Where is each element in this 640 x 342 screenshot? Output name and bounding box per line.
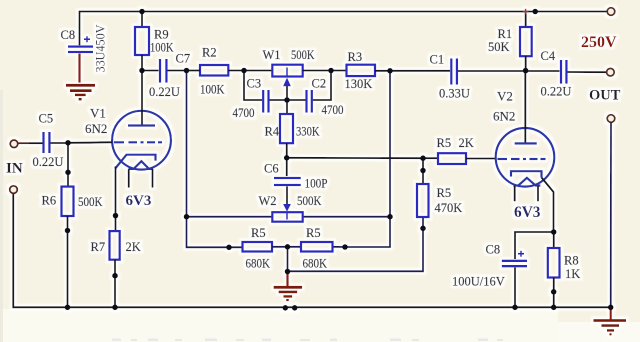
label 100K (R2)	[200, 83, 225, 97]
capacitor C5	[18, 132, 113, 153]
terminal (IN)	[10, 140, 18, 148]
node: R7 bottom joint	[112, 273, 118, 279]
label OUT	[589, 88, 621, 104]
svg-text:1K: 1K	[565, 267, 580, 281]
svg-text:R7: R7	[91, 240, 106, 254]
label 6V3 (V2 heater)	[514, 204, 541, 221]
label R5 (680K left)	[251, 226, 266, 240]
node marker (red cross at R1/top rail)	[523, 9, 529, 15]
svg-text:C2: C2	[312, 77, 327, 91]
node: W2 wire right/feedback	[387, 214, 393, 220]
label 100U/16V	[452, 275, 505, 289]
svg-text:W2: W2	[259, 194, 277, 208]
label IN	[6, 161, 23, 177]
node: W1 wiper/C3/C2	[284, 97, 290, 103]
capacitor C8 (100U/16V)	[502, 232, 554, 307]
resistor R8	[548, 232, 560, 307]
svg-text:6N2: 6N2	[85, 121, 107, 136]
wire: bottom ground rail	[13, 193, 610, 307]
resistor R9	[135, 12, 149, 71]
svg-text:R9: R9	[154, 28, 169, 42]
resistor R5 (470K)	[417, 158, 429, 217]
node: top rail right	[532, 9, 538, 15]
label 1K (R8)	[565, 267, 580, 281]
label R8	[564, 254, 579, 268]
label R5 (680K right)	[306, 226, 321, 240]
wire: R4 node to R5 grid row	[287, 157, 423, 159]
node: R9/C7/V1 anode	[139, 68, 145, 74]
label 4700 (C2)	[322, 103, 344, 117]
wire: red stub to bottom-right ground	[610, 307, 612, 319]
svg-text:250V: 250V	[581, 34, 617, 51]
svg-text:R5: R5	[437, 186, 452, 200]
svg-text:R1: R1	[498, 27, 513, 41]
label 33U450V (vertical)	[93, 24, 108, 73]
svg-text:0.22U: 0.22U	[541, 85, 572, 99]
resistor R7	[110, 231, 120, 307]
label C4	[541, 49, 556, 63]
vacuum tube V2 (6N2 triode)	[496, 71, 555, 232]
label R1	[498, 27, 513, 41]
node: 470K bottom joint	[420, 226, 426, 232]
node: R8 bottom joint	[551, 289, 557, 295]
capacitor C8 (33U450V)	[68, 36, 93, 82]
capacitor C4	[561, 60, 607, 84]
label 4700 (C3)	[233, 106, 255, 120]
svg-text:500K: 500K	[297, 194, 322, 208]
label 330K (R4)	[296, 125, 320, 139]
label V2	[497, 89, 513, 104]
node: rail/C8	[512, 305, 518, 311]
svg-text:R5: R5	[306, 226, 321, 240]
svg-text:130K: 130K	[345, 77, 373, 91]
node: V1 cathode/R7	[113, 213, 119, 219]
svg-text:6V3: 6V3	[514, 204, 541, 221]
label 500K (W1)	[291, 48, 315, 62]
label R3	[348, 50, 363, 64]
node: C7/R2/feedback	[184, 68, 190, 74]
node: rail/right edge	[608, 305, 614, 311]
node: R4/C6	[284, 155, 290, 161]
svg-text:C4: C4	[541, 49, 556, 63]
node: rail/ground left	[283, 305, 289, 311]
svg-text:680K: 680K	[246, 257, 271, 271]
label 6N2 (V1)	[85, 121, 107, 136]
label 6N2 (V2)	[493, 109, 515, 124]
svg-text:R6: R6	[42, 194, 57, 208]
vacuum tube V1 (6N2 triode)	[112, 71, 171, 232]
node: rail/R7	[112, 305, 118, 311]
label 2K (R7)	[126, 240, 141, 254]
terminal (IN ground)	[10, 186, 18, 194]
node: 680K right joint	[342, 244, 348, 250]
label C7	[176, 52, 191, 66]
label C6	[264, 162, 279, 176]
label 6V3 (V1 heater)	[126, 193, 152, 209]
label W2	[259, 194, 277, 208]
svg-text:500K: 500K	[78, 195, 103, 209]
capacitor C3	[244, 71, 306, 113]
node: R5 2K/470K	[420, 155, 426, 161]
svg-text:C1: C1	[430, 53, 445, 67]
capacitor C2	[307, 71, 332, 113]
node: ground/470K return	[285, 269, 291, 275]
label 680K (left)	[246, 257, 271, 271]
label 2K (R5)	[459, 136, 474, 150]
label 0.33U (C1)	[439, 87, 470, 101]
node: 470K top joint	[420, 168, 426, 174]
node: R6 top joint	[65, 170, 71, 176]
label 500K (R6)	[78, 195, 103, 209]
node: 680K centre/ground	[285, 244, 291, 250]
capacitor C1	[451, 59, 559, 85]
ground (under C8)	[66, 85, 95, 99]
label R9	[154, 28, 169, 42]
svg-text:2K: 2K	[459, 136, 474, 150]
wire: feedback line from C7 node down and W2 row	[187, 71, 391, 248]
svg-text:V1: V1	[90, 106, 106, 121]
ground (bottom right)	[594, 321, 627, 335]
label R6	[42, 194, 57, 208]
svg-text:C6: C6	[264, 162, 279, 176]
label R5 (470K)	[437, 186, 452, 200]
svg-text:4700: 4700	[322, 103, 344, 117]
svg-text:C7: C7	[176, 52, 191, 66]
svg-text:W1: W1	[263, 48, 281, 62]
svg-text:C8: C8	[61, 28, 76, 42]
svg-text:R5: R5	[251, 226, 266, 240]
wire: 680K centre tap to ground	[287, 247, 289, 272]
svg-text:100P: 100P	[305, 177, 328, 191]
label R2	[202, 46, 217, 60]
label 470K	[435, 201, 463, 215]
node: R2/W1/C3	[241, 68, 247, 74]
svg-text:R2: R2	[202, 46, 217, 60]
resistor R5 (680K right)	[301, 242, 333, 252]
resistor R3	[347, 65, 451, 76]
ground (under 680K)	[274, 287, 303, 300]
svg-text:2K: 2K	[126, 240, 141, 254]
wire: red stub to middle ground	[286, 272, 288, 287]
svg-text:OUT: OUT	[589, 88, 621, 104]
capacitor C7	[142, 59, 187, 83]
label C8 (second)	[486, 243, 501, 257]
svg-text:R4: R4	[265, 125, 280, 139]
svg-text:500K: 500K	[291, 48, 315, 62]
label 0.22U (C5)	[33, 155, 64, 169]
svg-text:R5: R5	[437, 136, 452, 150]
svg-text:33U450V: 33U450V	[93, 24, 108, 73]
svg-text:0.33U: 0.33U	[439, 87, 470, 101]
node: 680K chain left joint	[226, 245, 232, 251]
terminal (OUT ground)	[607, 115, 615, 123]
node: R6 bottom joint	[65, 228, 71, 234]
resistor R4	[280, 114, 293, 158]
label 50K (R1)	[488, 40, 510, 54]
terminal (250V top right)	[607, 8, 615, 16]
svg-text:IN: IN	[6, 161, 23, 177]
node: top rail / R9	[139, 9, 145, 15]
label 0.22U (C7)	[149, 85, 180, 99]
potentiometer W1	[272, 65, 346, 114]
wire: 470K bottom return	[288, 217, 424, 271]
svg-text:C3: C3	[247, 77, 262, 91]
svg-text:6N2: 6N2	[493, 109, 515, 124]
resistor R1	[520, 12, 532, 71]
node: rail/R8	[551, 305, 557, 311]
svg-text:330K: 330K	[296, 125, 320, 139]
node: C5/R6/V1 grid	[65, 140, 71, 146]
svg-text:100K: 100K	[200, 83, 225, 97]
label W1	[263, 48, 281, 62]
label C5	[39, 112, 54, 126]
potentiometer W2	[272, 186, 302, 221]
svg-text:R3: R3	[348, 50, 363, 64]
svg-text:4700: 4700	[233, 106, 255, 120]
label 130K (R3)	[345, 77, 373, 91]
label C3	[247, 77, 262, 91]
label 100K (R9)	[150, 41, 174, 55]
label 500K (W2)	[297, 194, 322, 208]
resistor R6	[62, 143, 74, 307]
resistor R5 (2K)	[423, 153, 497, 164]
svg-text:C5: C5	[39, 112, 54, 126]
svg-text:100K: 100K	[150, 41, 174, 55]
terminal (OUT)	[607, 68, 615, 76]
wire: right edge down from OUT ground terminal	[610, 122, 612, 307]
wire: top B+ rail	[80, 12, 608, 46]
label 0.22U (C4)	[541, 85, 572, 99]
label 100P (C6)	[305, 177, 328, 191]
label R7	[91, 240, 106, 254]
resistor R5 (680K left)	[243, 242, 302, 252]
label 250V	[581, 34, 617, 51]
label C2	[312, 77, 327, 91]
label 680K (right)	[303, 257, 328, 271]
svg-text:470K: 470K	[435, 201, 463, 215]
faint cropped caption remnants at bottom edge	[112, 339, 503, 342]
svg-text:V2: V2	[497, 89, 513, 104]
svg-text:50K: 50K	[488, 40, 510, 54]
svg-text:0.22U: 0.22U	[33, 155, 64, 169]
node: rail/R6	[65, 305, 71, 311]
capacitor C6	[274, 158, 301, 185]
label C1	[430, 53, 445, 67]
svg-text:0.22U: 0.22U	[149, 85, 180, 99]
node: W1/C2/R3	[328, 68, 334, 74]
label V1	[90, 106, 106, 121]
svg-text:680K: 680K	[303, 257, 328, 271]
svg-text:C8: C8	[486, 243, 501, 257]
label C8	[61, 28, 76, 42]
svg-text:100U/16V: 100U/16V	[452, 275, 505, 289]
svg-text:6V3: 6V3	[126, 193, 152, 209]
label R4	[265, 125, 280, 139]
node: R3/C1/feedback	[387, 68, 393, 74]
node: R1/C1/C4/V2 anode	[523, 68, 529, 74]
resistor R2	[187, 65, 273, 76]
label R5 (2K)	[437, 136, 452, 150]
node: V2 cathode/C8/R8	[551, 229, 557, 235]
node: feedback/W2 wire left	[184, 214, 190, 220]
svg-text:R8: R8	[564, 254, 579, 268]
node: rail/ground right	[292, 305, 298, 311]
